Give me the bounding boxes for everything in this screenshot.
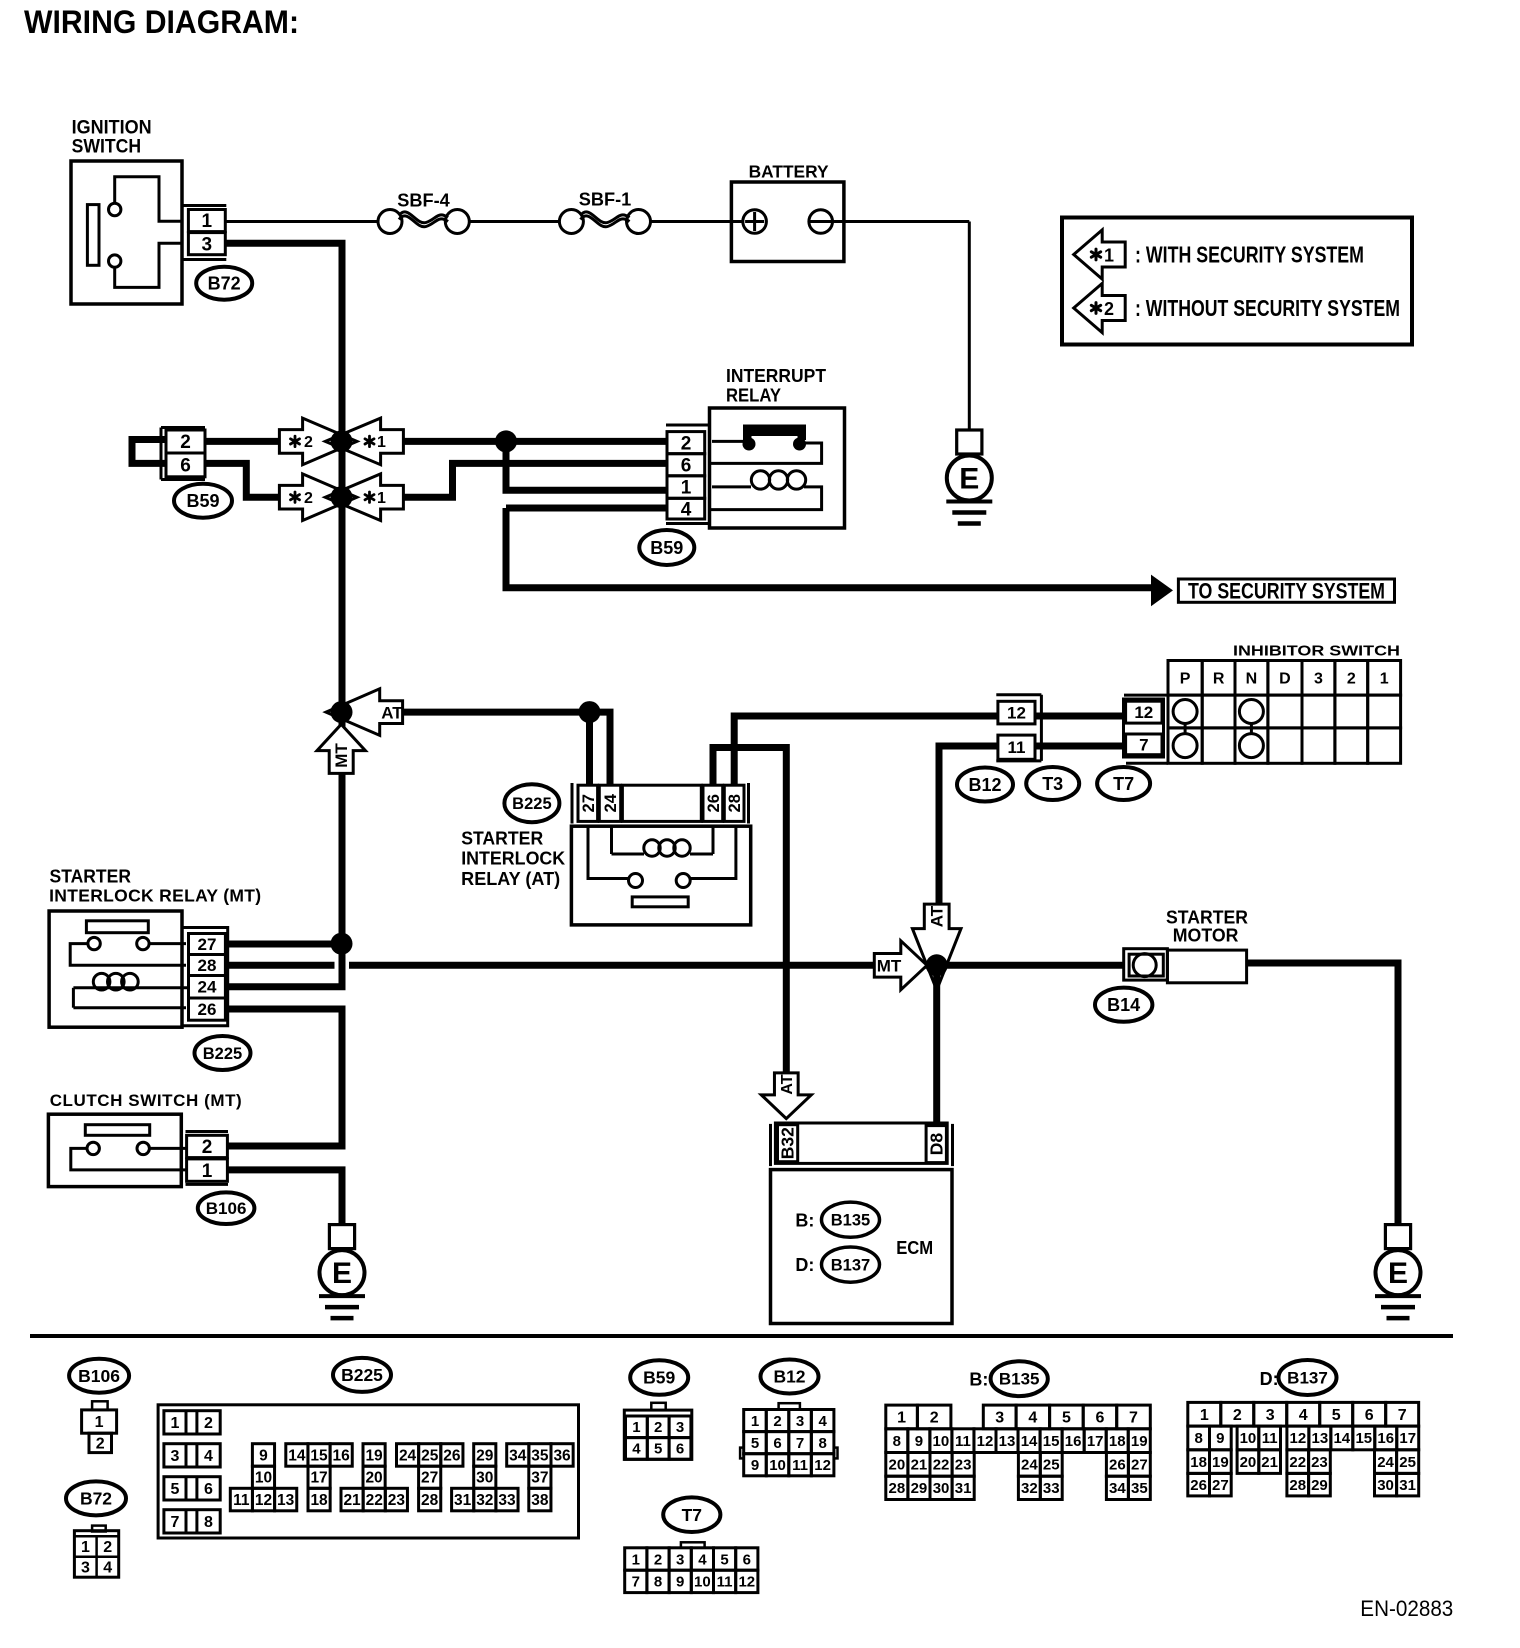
svg-text:19: 19 — [1131, 1433, 1148, 1450]
svg-text:D:: D: — [1260, 1369, 1279, 1389]
svg-text:T3: T3 — [1042, 774, 1063, 794]
svg-text:B225: B225 — [341, 1365, 383, 1385]
svg-text:6: 6 — [676, 1441, 684, 1458]
svg-text:6: 6 — [204, 1481, 213, 1498]
svg-text:21: 21 — [911, 1457, 928, 1474]
svg-text:21: 21 — [1261, 1454, 1278, 1471]
svg-text:12: 12 — [738, 1574, 755, 1591]
svg-text:2: 2 — [681, 433, 692, 454]
svg-text:31: 31 — [1399, 1477, 1416, 1494]
svg-text:2: 2 — [204, 1415, 213, 1432]
svg-text:26: 26 — [1190, 1477, 1207, 1494]
svg-text:B59: B59 — [650, 538, 683, 558]
svg-text:RELAY (AT): RELAY (AT) — [461, 869, 560, 889]
svg-text:14: 14 — [288, 1447, 306, 1464]
svg-text:MOTOR: MOTOR — [1173, 926, 1239, 946]
svg-text:12: 12 — [1290, 1430, 1307, 1447]
svg-text:4: 4 — [1299, 1407, 1308, 1424]
svg-text:27: 27 — [198, 935, 217, 954]
svg-text:15: 15 — [1355, 1430, 1372, 1447]
svg-text:9: 9 — [915, 1433, 923, 1450]
svg-text:B12: B12 — [968, 775, 1001, 795]
svg-text:2: 2 — [96, 1436, 105, 1453]
svg-text:23: 23 — [955, 1457, 972, 1474]
svg-text:EN-02883: EN-02883 — [1360, 1596, 1453, 1621]
svg-text:11: 11 — [792, 1457, 808, 1474]
svg-text:1: 1 — [897, 1410, 906, 1427]
svg-text:21: 21 — [343, 1492, 361, 1509]
svg-text:9: 9 — [259, 1447, 268, 1464]
svg-text:18: 18 — [1190, 1454, 1207, 1471]
svg-text:1: 1 — [1380, 670, 1389, 687]
svg-text:: WITH SECURITY SYSTEM: : WITH SECURITY SYSTEM — [1135, 242, 1364, 268]
svg-text:1: 1 — [81, 1539, 90, 1556]
svg-text:11: 11 — [1262, 1430, 1278, 1447]
svg-text:STARTER: STARTER — [50, 867, 132, 887]
svg-text:RELAY: RELAY — [726, 386, 781, 406]
svg-text:24: 24 — [1377, 1454, 1394, 1471]
svg-text:6: 6 — [180, 456, 191, 477]
svg-text:B135: B135 — [831, 1211, 870, 1229]
svg-text:27: 27 — [421, 1470, 438, 1487]
svg-text:B225: B225 — [512, 795, 551, 813]
svg-text:INTERLOCK: INTERLOCK — [461, 849, 565, 869]
svg-text:3: 3 — [1314, 670, 1323, 687]
svg-text:B:: B: — [969, 1370, 988, 1390]
svg-text:24: 24 — [602, 793, 620, 812]
svg-text:AT: AT — [381, 703, 403, 722]
svg-text:B:: B: — [795, 1211, 814, 1231]
svg-text:CLUTCH SWITCH (MT): CLUTCH SWITCH (MT) — [50, 1091, 242, 1110]
svg-text:22: 22 — [933, 1457, 950, 1474]
svg-text:4: 4 — [818, 1413, 827, 1430]
svg-text:16: 16 — [1377, 1430, 1394, 1447]
svg-text:34: 34 — [1109, 1480, 1126, 1497]
svg-text:11: 11 — [717, 1574, 733, 1591]
svg-text:T7: T7 — [1113, 774, 1134, 794]
svg-text:INTERLOCK RELAY (MT): INTERLOCK RELAY (MT) — [49, 886, 261, 906]
svg-text:1: 1 — [681, 478, 692, 499]
svg-text:1: 1 — [632, 1551, 640, 1568]
svg-text:3: 3 — [995, 1410, 1004, 1427]
svg-text:24: 24 — [399, 1447, 417, 1464]
svg-text:22: 22 — [1289, 1454, 1306, 1471]
svg-text:2: 2 — [1347, 670, 1356, 687]
svg-text:3: 3 — [676, 1551, 684, 1568]
svg-text:20: 20 — [1240, 1454, 1257, 1471]
svg-text:3: 3 — [796, 1413, 804, 1430]
svg-text:13: 13 — [277, 1492, 295, 1509]
svg-text:28: 28 — [726, 794, 744, 812]
svg-text:N: N — [1246, 670, 1258, 687]
svg-text:1: 1 — [377, 490, 386, 507]
svg-text:B59: B59 — [186, 491, 219, 511]
svg-text:2: 2 — [1104, 299, 1114, 319]
svg-text:D8: D8 — [926, 1133, 946, 1156]
svg-text:1: 1 — [202, 211, 213, 232]
svg-text:6: 6 — [1365, 1407, 1374, 1424]
svg-text:23: 23 — [1311, 1454, 1328, 1471]
svg-text:17: 17 — [1399, 1430, 1416, 1447]
svg-text:1: 1 — [171, 1415, 180, 1432]
svg-text:4: 4 — [632, 1441, 641, 1458]
svg-text:3: 3 — [1266, 1407, 1275, 1424]
svg-text:26: 26 — [1109, 1457, 1126, 1474]
svg-text:E: E — [332, 1257, 352, 1290]
svg-text:1: 1 — [1104, 245, 1114, 265]
svg-text:26: 26 — [198, 1000, 217, 1019]
svg-text:8: 8 — [654, 1574, 662, 1591]
svg-text:AT: AT — [927, 905, 946, 927]
svg-text:B135: B135 — [999, 1370, 1040, 1389]
svg-text:35: 35 — [1131, 1480, 1148, 1497]
svg-text:2: 2 — [202, 1137, 213, 1158]
svg-text:7: 7 — [632, 1574, 640, 1591]
svg-text:ECM: ECM — [896, 1237, 933, 1258]
svg-text:1: 1 — [1200, 1407, 1209, 1424]
svg-text:13: 13 — [1312, 1430, 1329, 1447]
svg-text:2: 2 — [1233, 1407, 1242, 1424]
svg-text:10: 10 — [255, 1470, 272, 1487]
svg-text:34: 34 — [509, 1447, 527, 1464]
svg-text:4: 4 — [681, 499, 692, 520]
svg-text:25: 25 — [1399, 1454, 1416, 1471]
svg-text:3: 3 — [81, 1560, 90, 1577]
svg-text:14: 14 — [1333, 1430, 1350, 1447]
svg-text:7: 7 — [1129, 1410, 1138, 1427]
svg-text:28: 28 — [198, 956, 217, 975]
svg-text:10: 10 — [1240, 1430, 1257, 1447]
svg-text:29: 29 — [911, 1480, 928, 1497]
svg-text:E: E — [959, 463, 979, 496]
svg-text:B32: B32 — [778, 1127, 798, 1159]
svg-text:19: 19 — [1212, 1454, 1229, 1471]
svg-text:28: 28 — [421, 1492, 439, 1509]
svg-text:12: 12 — [255, 1492, 272, 1509]
svg-text:36: 36 — [553, 1447, 571, 1464]
svg-text:35: 35 — [531, 1447, 549, 1464]
svg-text:8: 8 — [818, 1435, 826, 1452]
svg-text:29: 29 — [476, 1447, 494, 1464]
svg-text:3: 3 — [202, 234, 213, 255]
svg-text:6: 6 — [773, 1435, 781, 1452]
svg-text:25: 25 — [1043, 1457, 1060, 1474]
svg-text:3: 3 — [676, 1419, 684, 1436]
svg-text:17: 17 — [1087, 1433, 1104, 1450]
svg-text:B59: B59 — [643, 1368, 675, 1388]
svg-text:BATTERY: BATTERY — [749, 162, 829, 182]
svg-text:2: 2 — [180, 432, 191, 453]
svg-text:30: 30 — [476, 1470, 493, 1487]
svg-text:29: 29 — [1311, 1477, 1328, 1494]
svg-text:4: 4 — [1028, 1410, 1037, 1427]
svg-text:10: 10 — [933, 1433, 950, 1450]
svg-text:32: 32 — [476, 1492, 493, 1509]
svg-text:AT: AT — [779, 1074, 796, 1094]
svg-text:23: 23 — [388, 1492, 406, 1509]
svg-text:INHIBITOR SWITCH: INHIBITOR SWITCH — [1233, 643, 1400, 660]
svg-text:TO SECURITY SYSTEM: TO SECURITY SYSTEM — [1188, 578, 1385, 603]
svg-text:B137: B137 — [831, 1256, 870, 1274]
svg-text:9: 9 — [1216, 1430, 1224, 1447]
svg-text:30: 30 — [933, 1480, 950, 1497]
svg-text:5: 5 — [171, 1481, 180, 1498]
svg-text:1: 1 — [95, 1414, 104, 1431]
svg-text:B72: B72 — [80, 1489, 112, 1509]
svg-text:26: 26 — [443, 1447, 461, 1464]
svg-text:12: 12 — [1007, 704, 1026, 723]
svg-text:16: 16 — [1065, 1433, 1082, 1450]
svg-text:5: 5 — [720, 1551, 728, 1568]
svg-text:2: 2 — [304, 434, 313, 451]
svg-text:2: 2 — [103, 1539, 112, 1556]
svg-text:11: 11 — [1008, 738, 1026, 757]
svg-text:12: 12 — [814, 1457, 831, 1474]
svg-text:5: 5 — [1332, 1407, 1341, 1424]
svg-text:6: 6 — [1095, 1410, 1104, 1427]
svg-text:SWITCH: SWITCH — [72, 137, 142, 158]
svg-text:P: P — [1180, 670, 1191, 687]
svg-text:10: 10 — [769, 1457, 786, 1474]
svg-text:5: 5 — [751, 1435, 759, 1452]
svg-text:SBF-1: SBF-1 — [579, 189, 632, 210]
svg-text:10: 10 — [694, 1574, 711, 1591]
svg-text:4: 4 — [698, 1551, 707, 1568]
svg-text:28: 28 — [889, 1480, 906, 1497]
svg-text:33: 33 — [1043, 1480, 1060, 1497]
svg-text:20: 20 — [365, 1470, 382, 1487]
svg-text:37: 37 — [531, 1470, 548, 1487]
svg-text:31: 31 — [454, 1492, 472, 1509]
svg-text:B106: B106 — [78, 1366, 120, 1386]
svg-text:B14: B14 — [1107, 995, 1140, 1015]
svg-text:7: 7 — [1139, 735, 1148, 754]
svg-text:11: 11 — [955, 1433, 971, 1450]
svg-text:: WITHOUT SECURITY SYSTEM: : WITHOUT SECURITY SYSTEM — [1135, 295, 1400, 321]
svg-text:8: 8 — [1194, 1430, 1202, 1447]
svg-text:E: E — [1388, 1257, 1408, 1290]
svg-text:5: 5 — [654, 1441, 662, 1458]
svg-text:MT: MT — [877, 956, 902, 975]
svg-text:WIRING DIAGRAM:: WIRING DIAGRAM: — [24, 4, 299, 40]
svg-text:22: 22 — [366, 1492, 383, 1509]
svg-text:B225: B225 — [203, 1045, 242, 1063]
svg-text:11: 11 — [233, 1492, 250, 1509]
svg-text:9: 9 — [676, 1574, 684, 1591]
svg-text:1: 1 — [751, 1413, 759, 1430]
svg-text:12: 12 — [977, 1433, 994, 1450]
svg-text:4: 4 — [204, 1448, 213, 1465]
svg-text:R: R — [1213, 670, 1225, 687]
svg-text:2: 2 — [654, 1551, 662, 1568]
svg-text:15: 15 — [310, 1447, 328, 1464]
svg-text:4: 4 — [103, 1560, 112, 1577]
svg-text:18: 18 — [310, 1492, 328, 1509]
svg-text:7: 7 — [1398, 1407, 1407, 1424]
svg-text:B106: B106 — [206, 1199, 247, 1218]
svg-text:B137: B137 — [1287, 1368, 1328, 1387]
svg-text:24: 24 — [1021, 1457, 1038, 1474]
svg-text:13: 13 — [999, 1433, 1016, 1450]
svg-text:17: 17 — [310, 1470, 327, 1487]
svg-text:B12: B12 — [773, 1367, 805, 1387]
svg-text:24: 24 — [198, 978, 217, 997]
svg-text:16: 16 — [333, 1447, 351, 1464]
svg-text:33: 33 — [498, 1492, 516, 1509]
svg-text:2: 2 — [773, 1413, 781, 1430]
svg-text:D:: D: — [795, 1255, 814, 1275]
svg-text:20: 20 — [889, 1457, 906, 1474]
svg-text:7: 7 — [796, 1435, 804, 1452]
svg-text:19: 19 — [365, 1447, 383, 1464]
svg-text:7: 7 — [171, 1514, 180, 1531]
svg-text:15: 15 — [1043, 1433, 1060, 1450]
svg-text:D: D — [1279, 670, 1291, 687]
svg-text:27: 27 — [1131, 1457, 1148, 1474]
svg-text:2: 2 — [930, 1410, 939, 1427]
svg-text:INTERRUPT: INTERRUPT — [726, 366, 826, 386]
svg-text:38: 38 — [531, 1492, 549, 1509]
svg-text:12: 12 — [1134, 703, 1153, 722]
svg-text:27: 27 — [580, 794, 598, 812]
svg-text:IGNITION: IGNITION — [72, 118, 152, 139]
svg-text:30: 30 — [1377, 1477, 1394, 1494]
svg-text:STARTER: STARTER — [1166, 908, 1248, 928]
svg-text:2: 2 — [654, 1419, 662, 1436]
svg-text:27: 27 — [1212, 1477, 1229, 1494]
svg-text:MT: MT — [332, 743, 351, 768]
svg-text:T7: T7 — [682, 1505, 702, 1525]
svg-text:14: 14 — [1021, 1433, 1038, 1450]
svg-text:8: 8 — [893, 1433, 901, 1450]
svg-text:18: 18 — [1109, 1433, 1126, 1450]
svg-text:1: 1 — [377, 434, 386, 451]
svg-text:3: 3 — [171, 1448, 180, 1465]
svg-text:9: 9 — [751, 1457, 759, 1474]
svg-text:1: 1 — [202, 1161, 213, 1182]
svg-text:32: 32 — [1021, 1480, 1038, 1497]
svg-text:6: 6 — [743, 1551, 751, 1568]
svg-text:31: 31 — [955, 1480, 972, 1497]
svg-text:2: 2 — [304, 490, 313, 507]
svg-text:1: 1 — [632, 1419, 640, 1436]
svg-text:5: 5 — [1062, 1410, 1071, 1427]
svg-text:6: 6 — [681, 455, 692, 476]
svg-text:8: 8 — [204, 1514, 213, 1531]
svg-text:SBF-4: SBF-4 — [397, 190, 450, 211]
svg-text:25: 25 — [421, 1447, 439, 1464]
svg-text:28: 28 — [1289, 1477, 1306, 1494]
svg-text:26: 26 — [705, 794, 723, 812]
svg-text:B72: B72 — [208, 274, 241, 294]
svg-text:STARTER: STARTER — [461, 829, 543, 849]
